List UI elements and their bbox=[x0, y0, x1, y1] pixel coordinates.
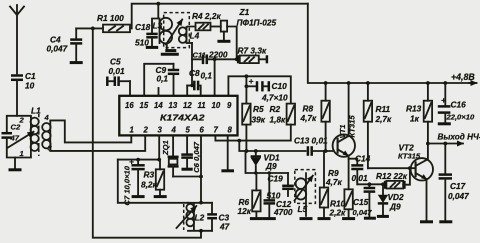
svg-text:0,047: 0,047 bbox=[448, 191, 469, 201]
resistor R5 bbox=[242, 104, 266, 125]
svg-text:11: 11 bbox=[198, 101, 206, 110]
capacitor C6 bbox=[181, 135, 201, 172]
ground (L3) bbox=[161, 44, 179, 54]
ground (R6) bbox=[250, 217, 263, 220]
svg-text:+: + bbox=[129, 157, 134, 167]
svg-text:2,2к: 2,2к bbox=[329, 208, 347, 218]
svg-text:13: 13 bbox=[169, 101, 178, 110]
ground (L5) bbox=[300, 217, 313, 220]
capacitor C19 bbox=[267, 173, 294, 201]
wire L2 tank bbox=[188, 203, 212, 233]
node (C17 top) bbox=[443, 142, 447, 146]
node (C15 tap) bbox=[368, 182, 372, 186]
svg-text:8: 8 bbox=[228, 126, 233, 135]
svg-text:4,7×10: 4,7×10 bbox=[261, 93, 288, 103]
wire base net bbox=[239, 141, 305, 151]
svg-text:22,0×10: 22,0×10 bbox=[446, 113, 475, 122]
svg-text:Д9: Д9 bbox=[389, 202, 401, 212]
svg-text:+: + bbox=[441, 95, 446, 105]
node (VD2 tap) bbox=[381, 182, 385, 186]
capacitor C18 bbox=[135, 19, 158, 48]
wire supply rail right bbox=[308, 4, 470, 83]
svg-text:5: 5 bbox=[186, 126, 191, 135]
svg-text:0,01: 0,01 bbox=[352, 173, 369, 183]
ground (C7) bbox=[132, 195, 145, 198]
svg-text:C19: C19 bbox=[268, 174, 284, 184]
IC U1 K174XA2 bbox=[119, 96, 237, 136]
inductor L1 secondary bbox=[42, 113, 52, 153]
+4,8V supply arrow bbox=[451, 72, 477, 83]
ground (C4) bbox=[70, 61, 83, 64]
svg-text:6: 6 bbox=[200, 126, 205, 135]
svg-text:39к: 39к bbox=[252, 115, 266, 125]
svg-text:R11: R11 bbox=[376, 104, 391, 114]
wire pin6 bbox=[199, 135, 203, 204]
svg-text:10: 10 bbox=[25, 81, 35, 91]
capacitor C11 bbox=[193, 50, 237, 65]
svg-text:2: 2 bbox=[19, 116, 25, 125]
wire R1 to top rail bbox=[130, 4, 308, 29]
svg-text:1,8к: 1,8к bbox=[270, 115, 287, 125]
wire pin3 bbox=[158, 135, 160, 159]
svg-text:1: 1 bbox=[20, 149, 24, 158]
wire VT1 emitter to R10 bbox=[348, 156, 350, 190]
wire pin9 to R5/R2 bbox=[228, 76, 290, 103]
svg-text:1к: 1к bbox=[410, 114, 420, 124]
svg-text:C6 0,047: C6 0,047 bbox=[192, 141, 201, 173]
inductor L5 bbox=[296, 172, 308, 217]
svg-text:VT1: VT1 bbox=[338, 125, 347, 139]
transistor VT1 bbox=[333, 115, 357, 157]
svg-text:R5: R5 bbox=[253, 104, 264, 114]
capacitor C4 bbox=[47, 28, 83, 61]
ground (R9) bbox=[318, 217, 331, 220]
ground (R10) bbox=[342, 217, 355, 220]
svg-text:C17: C17 bbox=[450, 181, 466, 191]
resistor R11 bbox=[364, 83, 392, 168]
resistor R7 bbox=[238, 46, 267, 64]
inductor L2 bbox=[186, 203, 204, 231]
resistor R4 bbox=[192, 11, 221, 30]
arrow (L3/L4 tuning) bbox=[166, 20, 182, 45]
svg-text:L5: L5 bbox=[298, 204, 308, 214]
svg-text:C5: C5 bbox=[110, 57, 121, 67]
svg-text:12к: 12к bbox=[238, 206, 252, 216]
wire L1:4 to IC pin 1 bbox=[50, 120, 131, 142]
svg-text:10: 10 bbox=[212, 101, 221, 110]
wire top rail to L3/C18 tank bbox=[157, 4, 159, 18]
svg-text:4,7к: 4,7к bbox=[325, 177, 343, 187]
wire VT1 collector bbox=[348, 83, 350, 136]
resistor R1 bbox=[97, 13, 130, 32]
IC pin numbers top bbox=[125, 101, 232, 110]
svg-text:4,7к: 4,7к bbox=[300, 113, 318, 123]
diode VD1 bbox=[251, 151, 280, 173]
L2 core (dashed) bbox=[183, 204, 185, 230]
node (R12 to base) bbox=[408, 166, 412, 170]
svg-text:1: 1 bbox=[130, 126, 134, 135]
resistor R13 bbox=[406, 83, 432, 160]
capacitor C16 (electrolytic) bbox=[438, 81, 475, 124]
wire C4 to R1 bbox=[76, 27, 103, 29]
svg-text:8,2к: 8,2к bbox=[141, 180, 158, 190]
wire supply down-left (to bottom rail) bbox=[93, 28, 201, 237]
svg-text:+: + bbox=[249, 76, 254, 86]
svg-text:КТ315: КТ315 bbox=[398, 152, 421, 161]
IC pin numbers bottom bbox=[130, 126, 233, 135]
resistor R6 bbox=[238, 173, 261, 217]
antenna WA bbox=[10, 5, 24, 74]
wire VT2 emitter to ground bbox=[426, 179, 428, 220]
svg-text:510: 510 bbox=[267, 191, 281, 201]
svg-text:4: 4 bbox=[44, 113, 50, 122]
capacitor C9 bbox=[156, 64, 180, 96]
wire pin16 bbox=[129, 81, 131, 95]
svg-text:R13: R13 bbox=[406, 104, 422, 114]
wire left bracket (pin3 net to pin6 net) bbox=[118, 160, 188, 203]
inductor L1 primary bbox=[19, 106, 42, 159]
resistor R3 bbox=[141, 160, 164, 196]
node (R8 to base) bbox=[324, 149, 328, 153]
capacitor C12 bbox=[264, 173, 293, 217]
wire pin12 stub bbox=[187, 86, 194, 96]
wire R5 bottom bbox=[245, 125, 247, 151]
svg-text:+4,8В: +4,8В bbox=[451, 72, 475, 82]
capacitor C7 (electrolytic) bbox=[123, 157, 145, 206]
wire VT2 base bbox=[368, 167, 416, 169]
svg-text:L3: L3 bbox=[153, 21, 163, 31]
resistor R10 bbox=[329, 189, 353, 217]
node (C10 tap) bbox=[245, 84, 249, 88]
wire detector net (R5 cont / VD1 bottom / R6 / C12 / C19) bbox=[246, 151, 289, 175]
resistor R12 bbox=[376, 168, 410, 189]
ground (C15) bbox=[364, 217, 376, 220]
wire C14/C15/VD2/R12 node bbox=[357, 183, 385, 185]
crystal ZQ1 bbox=[161, 135, 179, 176]
svg-text:2200: 2200 bbox=[208, 50, 228, 60]
svg-text:Д9: Д9 bbox=[265, 161, 277, 171]
node (VD1 tap) bbox=[254, 149, 258, 153]
capacitor C17 bbox=[439, 144, 470, 221]
svg-text:C8: C8 bbox=[189, 68, 200, 78]
ground (R3) bbox=[154, 195, 167, 198]
svg-text:R12 22к: R12 22к bbox=[376, 171, 408, 181]
svg-text:R2: R2 bbox=[270, 104, 281, 114]
diode VD2 bbox=[378, 184, 404, 215]
svg-text:14: 14 bbox=[154, 101, 163, 110]
node (output tap) bbox=[426, 142, 430, 146]
svg-text:C1: C1 bbox=[25, 71, 36, 81]
capacitor C3 bbox=[207, 203, 229, 232]
svg-text:L4: L4 bbox=[190, 31, 200, 41]
svg-text:4: 4 bbox=[171, 126, 177, 135]
svg-text:C13 0,01: C13 0,01 bbox=[294, 136, 328, 146]
wire L1:3 to IC pin 2 bbox=[50, 135, 145, 151]
L1 core (dashed) bbox=[38, 114, 40, 156]
wire R5 top bbox=[245, 76, 247, 103]
ground (C2/L1 tank) bbox=[9, 158, 22, 170]
svg-text:R7 3,3к: R7 3,3к bbox=[238, 46, 267, 56]
resistor R2 bbox=[270, 104, 296, 125]
svg-text:0,01: 0,01 bbox=[109, 66, 126, 76]
svg-text:3: 3 bbox=[158, 126, 163, 135]
capacitor C1 bbox=[11, 71, 36, 116]
svg-text:ПФ1П-025: ПФ1П-025 bbox=[237, 18, 277, 28]
wire tank top bbox=[7, 116, 31, 132]
wire pin10 bbox=[214, 59, 216, 95]
svg-text:L1: L1 bbox=[31, 106, 41, 116]
svg-text:16: 16 bbox=[125, 101, 134, 110]
svg-text:К174ХА2: К174ХА2 bbox=[160, 113, 205, 123]
shield box L5 (dashed) bbox=[295, 170, 316, 204]
svg-text:L2: L2 bbox=[195, 213, 205, 223]
ground (C18) bbox=[146, 46, 158, 49]
svg-text:7: 7 bbox=[214, 126, 219, 135]
node (R5 bottom on base net) bbox=[245, 149, 249, 153]
svg-text:4700: 4700 bbox=[273, 207, 293, 217]
svg-text:0,1: 0,1 bbox=[157, 74, 169, 84]
inductor L3 bbox=[153, 18, 173, 44]
wire C7/R3 top bbox=[118, 158, 161, 162]
capacitor C5 bbox=[107, 57, 130, 87]
capacitor C15 bbox=[353, 184, 376, 217]
wire L4 to C11 bbox=[192, 43, 201, 59]
svg-text:0,047: 0,047 bbox=[353, 208, 373, 217]
svg-text:C11: C11 bbox=[193, 51, 206, 60]
svg-text:R4 2,2к: R4 2,2к bbox=[192, 11, 221, 21]
svg-text:47: 47 bbox=[219, 222, 230, 232]
resistor R8 bbox=[300, 83, 330, 151]
wire output bbox=[428, 133, 480, 144]
svg-text:2,7к: 2,7к bbox=[375, 114, 393, 124]
wire pin15 to C9 bbox=[144, 64, 173, 96]
wire pin14 stub bbox=[158, 88, 160, 96]
node (R5 branch) bbox=[245, 74, 249, 78]
ground (VD2) bbox=[377, 215, 389, 218]
arrow (L1/C2 tuning) bbox=[8, 132, 34, 148]
wire C11 node to C8 bbox=[190, 59, 193, 87]
arrow (L2 tuning) bbox=[177, 206, 197, 228]
svg-text:0,047: 0,047 bbox=[47, 44, 68, 54]
ground (VT2 emitter) bbox=[420, 220, 433, 223]
capacitor C14 bbox=[349, 154, 371, 185]
svg-text:C10: C10 bbox=[272, 81, 288, 91]
capacitor C13 bbox=[294, 136, 333, 156]
svg-text:R1 100: R1 100 bbox=[97, 13, 124, 23]
filter Z1 bbox=[211, 7, 277, 59]
arrow (L5 tuning) bbox=[295, 176, 313, 201]
capacitor C2 (variable) bbox=[2, 123, 31, 158]
resistor R9 bbox=[320, 151, 343, 217]
capacitor C10 (electrolytic) bbox=[246, 76, 288, 103]
capacitor C8 bbox=[187, 68, 212, 96]
wire pin7 to R2 bottom bbox=[215, 125, 290, 141]
rail nodes bbox=[324, 81, 430, 85]
svg-text:C18: C18 bbox=[135, 22, 151, 32]
svg-text:VD2: VD2 bbox=[388, 192, 405, 202]
ground (Z1) bbox=[217, 32, 230, 42]
inductor L4 bbox=[179, 27, 200, 44]
node (base net drop) bbox=[237, 139, 241, 143]
ground (pin8) bbox=[221, 135, 234, 170]
svg-text:R8: R8 bbox=[303, 104, 314, 114]
terminal (C5 input) bbox=[106, 77, 109, 87]
svg-text:Выход НЧ-: Выход НЧ- bbox=[438, 133, 480, 142]
svg-text:9: 9 bbox=[227, 101, 232, 110]
svg-text:15: 15 bbox=[140, 101, 149, 110]
wire ZQ1 bottom to pin6 net bbox=[173, 175, 203, 179]
svg-text:C7 10,0×10: C7 10,0×10 bbox=[123, 165, 132, 205]
node (Z1/C11/R7) bbox=[235, 57, 239, 61]
svg-text:ZQ1: ZQ1 bbox=[161, 140, 170, 156]
svg-text:12: 12 bbox=[183, 101, 192, 110]
shield box L3/L4 (dashed) bbox=[164, 13, 190, 48]
svg-text:Z1: Z1 bbox=[239, 7, 250, 17]
svg-text:0,1: 0,1 bbox=[201, 71, 213, 81]
transistor VT2 bbox=[398, 143, 433, 181]
node (R1 input / down wire) bbox=[91, 27, 95, 31]
svg-text:C15: C15 bbox=[353, 197, 369, 207]
svg-text:R3: R3 bbox=[144, 170, 155, 180]
ground (C17) bbox=[439, 220, 452, 223]
ground (C12) bbox=[263, 217, 276, 220]
node (L3 tap on top rail) bbox=[156, 2, 160, 6]
node (pin10 tap) bbox=[213, 57, 217, 61]
svg-text:C16: C16 bbox=[451, 100, 467, 110]
svg-text:2: 2 bbox=[143, 126, 149, 135]
